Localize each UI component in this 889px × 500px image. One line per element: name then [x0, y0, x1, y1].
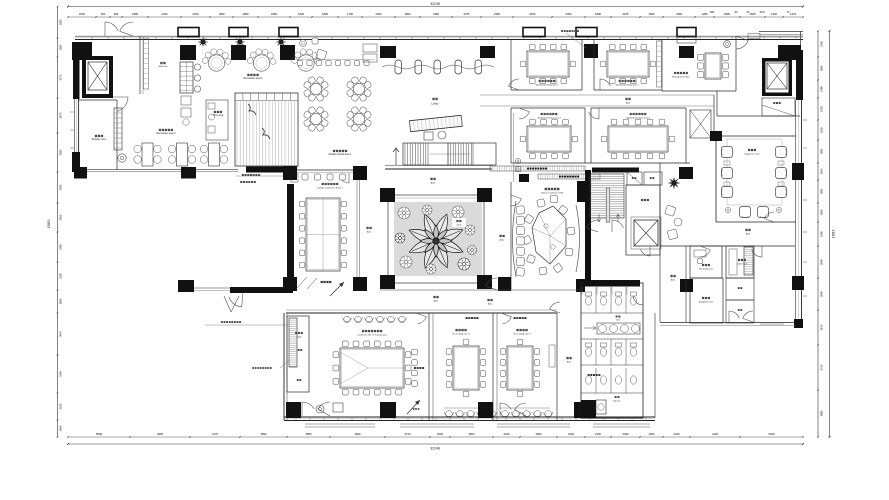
svg-text:Synthesis/meeting room 4: Synthesis/meeting room 4 [537, 117, 561, 120]
stair landing line [385, 166, 492, 170]
armchair cluster near wall [300, 38, 327, 60]
label storage room [92, 135, 106, 141]
label print area [213, 111, 224, 117]
column variable room NE [353, 166, 367, 180]
label courtyard [452, 218, 466, 227]
svg-text:2150: 2150 [595, 432, 601, 436]
svg-text:2450: 2450 [59, 214, 63, 220]
meeting room B bench row [444, 408, 497, 417]
multifunctional area petal table 2 [346, 76, 372, 102]
meeting room 4 table [520, 119, 578, 159]
svg-text:13815: 13815 [47, 219, 51, 228]
bottom overall dimension line 32248 [67, 443, 804, 450]
label variable conference room [317, 183, 344, 190]
top wall bay window 1 [178, 28, 199, 37]
svg-text:Multifunctional area 1: Multifunctional area 1 [329, 153, 352, 156]
wall camera fixtures [515, 158, 520, 171]
management office walls [662, 36, 736, 91]
label negotiation room [744, 149, 760, 156]
svg-text:Conference Rm 17 Training room: Conference Rm 17 Training room [357, 335, 387, 337]
booth sofa 2 [247, 49, 276, 71]
svg-text:3560: 3560 [306, 432, 312, 436]
svg-text:Aisle: Aisle [434, 300, 440, 303]
svg-text:4560: 4560 [355, 432, 361, 436]
foyer art wall pills [382, 60, 494, 74]
management office symbol [724, 41, 731, 48]
column toilet SW [581, 400, 596, 418]
meeting room 3 table [600, 44, 656, 84]
monitoring room walls [690, 246, 722, 278]
training room chairs along top wall [343, 316, 407, 322]
svg-text:32248: 32248 [430, 2, 440, 6]
label multifunctional area 1 [329, 150, 352, 156]
svg-text:1070: 1070 [759, 11, 765, 14]
meeting room B walls [433, 313, 493, 420]
svg-text:2150: 2150 [193, 12, 199, 16]
label lobby [431, 98, 439, 106]
planter in bay 1 [198, 37, 209, 48]
svg-text:1890: 1890 [820, 148, 824, 154]
label recreation area 1 [243, 74, 263, 80]
vip faceted table [532, 206, 566, 264]
column vip NE [577, 181, 585, 202]
projector symbol [316, 405, 324, 413]
column right wall bottom [794, 319, 803, 328]
svg-text:2360: 2360 [376, 12, 382, 16]
door arcs middle corridor [416, 195, 650, 324]
door arcs lower-left entrance [224, 292, 243, 312]
label aisle east of variable room [366, 227, 371, 234]
top wall right section [759, 32, 803, 100]
svg-text:2360: 2360 [676, 12, 682, 16]
svg-text:2390: 2390 [59, 184, 63, 190]
column vip N small [519, 174, 529, 182]
column top wall B [231, 45, 246, 60]
utility shaft with X near corridor [690, 110, 711, 138]
svg-text:Synthesis/meeting room 2: Synthesis/meeting room 2 [535, 84, 559, 87]
svg-text:950: 950 [114, 12, 119, 16]
safety room walls [287, 316, 309, 392]
training room big table [333, 341, 411, 395]
courtyard plant 1 [398, 207, 410, 219]
svg-text:1890: 1890 [405, 12, 411, 16]
south wall below variable room [194, 287, 293, 293]
label meeting room 4 [537, 113, 561, 120]
svg-text:1580: 1580 [820, 209, 824, 215]
svg-text:Toilet: Toilet [616, 319, 621, 322]
variable conference room chairs top row [302, 174, 346, 180]
column lobby west [380, 46, 396, 58]
svg-text:Aisle: Aisle [431, 182, 437, 185]
label duct room small [298, 349, 300, 351]
av cabinet [333, 403, 343, 412]
svg-text:atrium: atrium [456, 224, 462, 227]
svg-text:safety: safety [296, 336, 301, 339]
exterior sill bottom 2 [400, 424, 474, 427]
glass partition strip 1 below rooms [490, 166, 585, 171]
exterior sill bottom 4 [593, 424, 650, 427]
svg-text:1890: 1890 [59, 298, 63, 304]
vip conference hall walls [511, 113, 580, 290]
stair exit door arcs [587, 220, 624, 232]
elevator top-left cab with X [88, 62, 107, 90]
label water bar [158, 62, 168, 68]
elevator lobby door arc [113, 97, 128, 112]
column courtyard NW [380, 188, 395, 202]
meeting room 2 walls [511, 40, 582, 90]
svg-text:2870: 2870 [820, 324, 824, 330]
label meeting room A [513, 329, 532, 336]
stairwell thick west wall [585, 170, 591, 286]
top wall bay window 5 [576, 28, 597, 37]
vip chairs around table [522, 195, 575, 275]
label aisle below courtyard [433, 296, 439, 303]
training room extra chairs east [412, 349, 424, 386]
svg-text:2360: 2360 [271, 12, 277, 16]
glass partition strip 2 below rooms [538, 174, 600, 179]
toilet block outer walls [581, 283, 643, 418]
planter in bay 2 [235, 37, 246, 48]
column vip SE [576, 279, 585, 292]
svg-text:3880: 3880 [820, 410, 824, 416]
svg-text:2620: 2620 [59, 19, 63, 25]
svg-text:Variable Conference Room 1: Variable Conference Room 1 [317, 188, 344, 190]
left exterior wall upper thick [73, 46, 80, 99]
svg-text:1890: 1890 [724, 12, 730, 16]
projection screen label [321, 281, 323, 283]
stairwell stairs flights [590, 174, 624, 222]
column negotiation NW [710, 131, 722, 141]
svg-text:2450: 2450 [59, 244, 63, 250]
toilet stall row 1 [581, 287, 643, 313]
cabinet meeting room A east [549, 345, 555, 367]
storage room walls [78, 100, 117, 170]
column east of stairwell low [680, 279, 693, 292]
entry partition wall with shelf [140, 36, 149, 94]
top wall bay window 3 [279, 28, 298, 37]
column top-right corner [778, 45, 801, 60]
label aisle above bottom block [487, 299, 493, 306]
svg-text:1980: 1980 [820, 231, 824, 237]
service shaft hatch [744, 247, 753, 275]
column courtyard NE [477, 188, 492, 202]
label meeting room 5 [626, 113, 650, 120]
lounge chairs pair [665, 205, 682, 240]
glass partition label 2 [240, 181, 256, 183]
meeting room 2 table [520, 44, 576, 84]
column top wall D [585, 46, 598, 58]
elevator top-right shaft [762, 58, 792, 96]
svg-text:1650: 1650 [820, 127, 824, 133]
stairwell east wall [659, 163, 661, 246]
training room table inner arrow [340, 352, 404, 384]
svg-text:3560: 3560 [469, 432, 475, 436]
central elevator with X [631, 217, 661, 249]
mop sink room [596, 396, 621, 414]
north arrow symbol [330, 282, 344, 296]
svg-text:1890: 1890 [820, 188, 824, 194]
side cabinet near lobby [363, 44, 377, 62]
door arc meeting room 5 entrance [589, 108, 599, 119]
exterior sill bottom 1 [305, 424, 375, 427]
label recreation area 2 [156, 129, 176, 135]
svg-text:2140: 2140 [820, 41, 824, 47]
svg-text:1400: 1400 [820, 168, 824, 174]
wall y116 right section [717, 115, 800, 117]
management office table [698, 53, 729, 79]
svg-text:The meeting room 2: The meeting room 2 [452, 333, 471, 336]
courtyard plant 7 [426, 264, 436, 274]
glass note room A [514, 317, 516, 319]
corridor line above bottom block [380, 289, 580, 291]
booth sofa 3 [292, 49, 321, 71]
svg-text:2300: 2300 [568, 432, 574, 436]
top segment dimension chain [67, 12, 804, 18]
door arc meeting room 4 entrance [519, 108, 529, 119]
exit door arcs lower-right [729, 311, 784, 324]
lower-right section bottom wall [660, 323, 796, 326]
svg-text:2075: 2075 [623, 12, 629, 16]
negotiation lounge chairs right [776, 147, 787, 198]
svg-text:4120: 4120 [712, 432, 718, 436]
toilet corridor east wall [654, 313, 656, 418]
negotiation corner lamps [725, 207, 781, 212]
svg-text:Mop area: Mop area [613, 400, 620, 403]
svg-text:1830: 1830 [820, 106, 824, 112]
svg-text:5090: 5090 [96, 432, 102, 436]
column bottom 3 [478, 402, 493, 418]
column variable room SW [283, 277, 297, 291]
top-right small dimension numbers [710, 11, 790, 14]
glass note room B [466, 317, 468, 319]
svg-text:2300: 2300 [59, 273, 63, 279]
bottom block south wall with windows [284, 417, 655, 421]
svg-text:Monitoring room: Monitoring room [699, 268, 713, 271]
meeting room 4 walls [511, 108, 585, 163]
toilet wash basin counter [584, 323, 640, 334]
svg-text:Lobby: Lobby [431, 102, 439, 106]
negotiation lounge chairs left [722, 147, 733, 198]
label monitoring room [699, 264, 713, 271]
glass partition note line room2 [561, 30, 586, 48]
entrance door arcs bottom-left [302, 402, 330, 416]
door arc meeting room 2 entrance [509, 79, 519, 90]
glass note middle-left [252, 360, 290, 369]
svg-text:905: 905 [710, 11, 715, 14]
svg-text:2230: 2230 [504, 432, 510, 436]
svg-text:2360: 2360 [494, 12, 500, 16]
water bar counter strip [180, 62, 193, 93]
top wall bay window 4 [523, 28, 545, 37]
meeting room B table [446, 339, 486, 397]
negotiation room walls [716, 132, 796, 222]
glass partition label 1 [236, 174, 286, 176]
svg-text:1390: 1390 [702, 12, 708, 16]
svg-text:1640: 1640 [437, 432, 443, 436]
grand staircase [393, 143, 496, 165]
courtyard plant 6 [400, 256, 412, 268]
second row bottom wall [511, 162, 690, 164]
toilet thick wall top [584, 280, 640, 287]
column south wall west [178, 280, 194, 292]
column vip SW [498, 277, 511, 291]
svg-text:1650: 1650 [649, 12, 655, 16]
feature wall panel with vertical glazing [235, 93, 298, 166]
reception desk [409, 115, 462, 140]
column left wall mid [72, 152, 80, 172]
multifunctional area petal table 3 [303, 106, 329, 132]
air shaft rooms lower-right [726, 278, 754, 323]
elevator top-right cab with X [767, 63, 787, 89]
column bottom 1 [286, 402, 301, 418]
planter in bay 3 [276, 37, 287, 48]
svg-text:Coffee room: Coffee room [737, 263, 748, 266]
column between meeting rooms 2-3 [584, 44, 598, 58]
svg-text:2340: 2340 [162, 12, 168, 16]
svg-text:13815: 13815 [832, 229, 836, 238]
glass note above bottom block [205, 321, 288, 325]
meeting room A bench row [500, 408, 553, 417]
cabinet shelf strip [114, 108, 122, 150]
washing machine symbol [118, 154, 126, 162]
svg-text:3740: 3740 [405, 432, 411, 436]
svg-text:Aisle: Aisle [500, 239, 506, 242]
svg-text:1890: 1890 [243, 12, 249, 16]
column left lower wall west [74, 167, 87, 179]
bar lower seats [181, 96, 191, 125]
door leafs variable room SW [296, 277, 317, 289]
svg-text:1890: 1890 [595, 12, 601, 16]
svg-text:Aisle: Aisle [567, 361, 571, 364]
flower petal stroke fix [0, 0, 1, 1]
label meeting room 2 [535, 80, 559, 87]
svg-text:Kitchen Conference Hall: Kitchen Conference Hall [541, 192, 563, 195]
power distribution room [626, 185, 660, 255]
svg-text:1680: 1680 [219, 12, 225, 16]
label aisle below stairs [430, 178, 436, 185]
label meeting room B [452, 329, 471, 336]
svg-text:1620: 1620 [298, 12, 304, 16]
svg-text:2040: 2040 [79, 12, 85, 16]
top overall dimension line 32248 [67, 2, 804, 7]
right exterior wall with windows [796, 50, 808, 325]
multifunctional area petal table 1 [303, 76, 329, 102]
column bottom 4 [574, 402, 590, 418]
courtyard plant 2 [422, 205, 432, 215]
courtyard plant 4 [465, 225, 475, 235]
svg-text:2580: 2580 [59, 149, 63, 155]
elevator top-left shaft walls [82, 56, 113, 98]
svg-text:Synthesis/meeting room 3: Synthesis/meeting room 3 [615, 84, 639, 87]
column top wall C [280, 45, 295, 60]
top exterior wall with window band [75, 36, 803, 39]
equipment room walls [690, 278, 723, 323]
column variable room NW [283, 166, 297, 180]
escape route arrow [407, 400, 420, 414]
label training room [357, 330, 387, 337]
column lobby east [480, 46, 495, 58]
svg-text:Negotiation room: Negotiation room [744, 153, 760, 156]
column bottom 2 [380, 402, 396, 418]
label management office [672, 72, 690, 79]
elevator lobby top-right [736, 34, 760, 50]
figure sketch on panel 1 [248, 104, 256, 115]
courtyard glass walls [388, 195, 484, 283]
svg-text:1890: 1890 [322, 12, 328, 16]
label toilet [616, 316, 621, 322]
svg-text:3370: 3370 [59, 74, 63, 80]
bottom segment dimension chain [67, 432, 804, 438]
bottom block top wall [286, 310, 557, 313]
meeting room 5 walls [591, 108, 686, 163]
top wall bay window 2 [229, 28, 248, 37]
variable conference room long table [299, 198, 346, 271]
column top wall A [180, 45, 196, 60]
toilet stall row 3 [581, 368, 643, 393]
svg-text:3890: 3890 [261, 432, 267, 436]
bottom block west wall [284, 313, 287, 420]
courtyard plant 3 [452, 206, 464, 218]
table centre lines variable room [306, 198, 340, 271]
courtyard plant 9 [468, 246, 477, 255]
label coffee room [737, 259, 748, 266]
stairwell top thick wall [592, 168, 639, 173]
variable conference room walls [287, 170, 360, 290]
label meeting room 3 [615, 80, 639, 87]
left lower horizontal wall [87, 169, 238, 171]
label vip conference hall [541, 188, 563, 195]
vip chairs along left wall [516, 205, 525, 276]
svg-text:2230: 2230 [59, 403, 63, 409]
svg-text:3050: 3050 [536, 432, 542, 436]
svg-text:Aisle: Aisle [367, 231, 371, 234]
door arc meeting room 3 entrance [600, 79, 610, 90]
svg-text:2360: 2360 [566, 12, 572, 16]
courtyard central flower [409, 214, 463, 268]
label accessible toilet [588, 374, 590, 376]
wall east of corridor x717 [716, 91, 718, 116]
meeting room A walls [497, 313, 557, 420]
svg-text:1480: 1480 [820, 86, 824, 92]
svg-text:3470: 3470 [59, 331, 63, 337]
svg-text:1890: 1890 [820, 65, 824, 71]
exterior sill bottom 3 [497, 424, 570, 427]
svg-text:2640: 2640 [820, 291, 824, 297]
label safety room [295, 332, 303, 339]
svg-text:1750: 1750 [347, 12, 353, 16]
column top wall E [679, 46, 694, 58]
column east of stairwell [679, 167, 693, 179]
coffee room walls [726, 246, 754, 278]
label aisle right of courtyard [499, 235, 505, 242]
svg-text:Management Office: Management Office [672, 76, 690, 79]
thick wall west of variable conference room [246, 167, 293, 173]
entrance door arcs bottom-mid [500, 403, 526, 416]
svg-text:1900: 1900 [649, 432, 655, 436]
top wall bay window 6 [677, 28, 696, 37]
svg-text:5200: 5200 [769, 432, 775, 436]
safety room shaft hatch [289, 318, 297, 367]
corridor wall x511 [510, 40, 512, 90]
column variable room SE [353, 277, 367, 291]
column top-left corner [72, 42, 92, 60]
negotiation lounge chairs bottom [740, 207, 769, 218]
door arcs on corridor y246 [700, 212, 774, 257]
column left lower wall [181, 167, 196, 179]
column right wall mid [792, 163, 804, 180]
meeting room A table [500, 339, 540, 397]
label aisle west of toilets [566, 357, 571, 364]
